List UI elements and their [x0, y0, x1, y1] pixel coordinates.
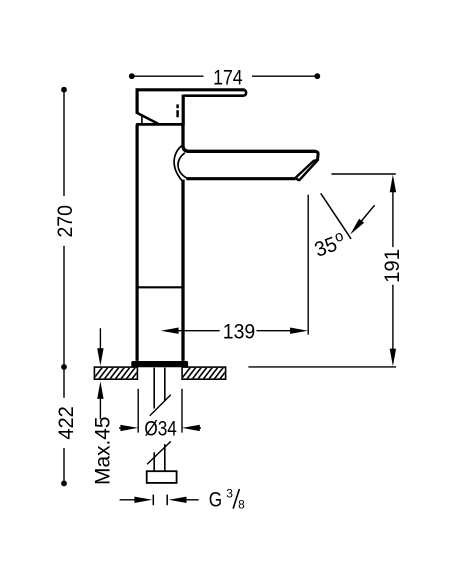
- mounting nut: [147, 471, 177, 483]
- counter left block hatched: [91, 364, 149, 382]
- extension line spout tip horizontal: [331, 173, 395, 175]
- dimension 191: [392, 190, 394, 350]
- dimension 139: [177, 330, 291, 332]
- spout: [186, 151, 318, 178]
- extension line counter top horizontal: [248, 366, 396, 368]
- svg-text:422: 422: [55, 406, 78, 440]
- spout-column fillet curves: [174, 146, 187, 182]
- handle indicator dash: [176, 104, 179, 117]
- supply rod lower segment: [154, 444, 165, 471]
- dimension G 3/8: [120, 495, 199, 506]
- faucet column: [137, 124, 189, 361]
- svg-text:139: 139: [223, 320, 256, 343]
- break slash upper: [150, 395, 171, 416]
- column divider joint line: [137, 286, 183, 288]
- lever handle top bar: [136, 90, 247, 96]
- base flange: [131, 361, 188, 367]
- svg-text:191: 191: [381, 249, 404, 283]
- counter right block hatched: [179, 364, 237, 382]
- supply rod upper segment: [154, 368, 165, 409]
- dimension 174: [132, 75, 317, 77]
- break slash lower: [147, 441, 171, 464]
- dimension Max.45: [99, 328, 101, 419]
- svg-text:8: 8: [238, 497, 245, 511]
- dimension 270: [63, 90, 65, 398]
- svg-text:Max.45: Max.45: [92, 416, 115, 485]
- handle body: [136, 88, 184, 124]
- dimension Ø34: [119, 389, 201, 433]
- spout tip cut face: [296, 160, 318, 180]
- svg-text:3: 3: [226, 486, 233, 500]
- svg-text:270: 270: [54, 205, 77, 238]
- svg-text:G: G: [209, 489, 222, 512]
- extension line spout tip vertical: [307, 195, 309, 335]
- svg-text:Ø34: Ø34: [144, 417, 177, 440]
- svg-text:174: 174: [213, 66, 243, 89]
- dimension 422: [63, 448, 65, 483]
- dimension 35 degrees: [321, 193, 375, 239]
